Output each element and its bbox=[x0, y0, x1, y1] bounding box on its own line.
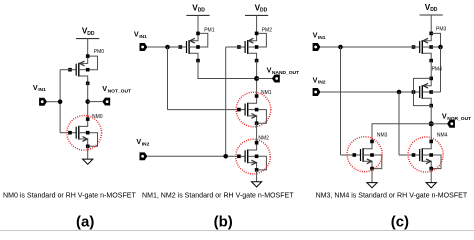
output pin V_NOT_OUT bbox=[102, 98, 110, 106]
svg-text:IN1: IN1 bbox=[318, 35, 326, 41]
svg-text:NM1, NM2 is Standard or RH V-g: NM1, NM2 is Standard or RH V-gate n-MOSF… bbox=[142, 192, 294, 199]
wire VDD to PM0 source bbox=[87, 39, 89, 55]
ground NM3 bbox=[367, 183, 377, 188]
svg-text:IN1: IN1 bbox=[139, 34, 147, 40]
wire NM3 source to ground bbox=[371, 169, 373, 183]
svg-text:NOT_OUT: NOT_OUT bbox=[108, 88, 131, 94]
svg-text:V: V bbox=[136, 137, 141, 146]
input pin V_IN1 bbox=[39, 98, 47, 106]
svg-text:DD: DD bbox=[198, 8, 206, 14]
wire PM4 source-side tie loop bbox=[414, 78, 432, 105]
wire V_IN2 pin to PM4 gate bbox=[321, 91, 416, 93]
node V_IN1 junction bbox=[58, 99, 63, 104]
wire VDD to PM1 source bbox=[197, 15, 199, 32]
svg-text:IN1: IN1 bbox=[38, 87, 46, 93]
wire PM3 drain to PM4 source bbox=[430, 61, 432, 79]
wire to V_NOT_OUT pin bbox=[88, 101, 103, 103]
red dashed marker circle around NM2 bbox=[236, 139, 271, 174]
transistor PM2 (p-MOSFET) bbox=[237, 32, 266, 63]
svg-text:NM0 is Standard or RH V-gate n: NM0 is Standard or RH V-gate n-MOSFET bbox=[3, 192, 136, 199]
transistor NM0 (n-MOSFET) bbox=[68, 117, 97, 148]
red dashed marker circle around NM1 bbox=[236, 92, 271, 127]
svg-text:V: V bbox=[102, 84, 107, 93]
label V_IN1 (b) bbox=[134, 30, 147, 40]
wire V_IN1 rail bbox=[59, 70, 61, 133]
node V_IN2 junction (b) bbox=[223, 154, 228, 159]
node V_IN1 junction (b) bbox=[165, 45, 170, 50]
red dashed marker circle around NM3 bbox=[347, 137, 382, 172]
power symbol V_DD supply bbox=[76, 27, 99, 39]
wire V_IN2 rail (c) bbox=[398, 92, 400, 155]
wire NM1 source to NM2 drain bbox=[256, 123, 258, 143]
wire PM1 drain to output node bbox=[198, 61, 257, 79]
input pin V_IN2 (c) bbox=[313, 88, 321, 96]
wire PM3 source to bulk rail bbox=[431, 33, 440, 47]
svg-text:IN2: IN2 bbox=[318, 80, 326, 86]
wire V_IN1 rail to NM0 gate bbox=[60, 132, 71, 134]
label V_IN1 (c) bbox=[313, 31, 326, 41]
svg-text:DD: DD bbox=[87, 31, 95, 37]
ground (a) bbox=[83, 159, 93, 164]
wire V_IN2 rail (b) bbox=[225, 47, 227, 156]
input pin V_IN2 (b) bbox=[140, 152, 148, 160]
transistor PM1 (p-MOSFET) bbox=[179, 32, 208, 63]
svg-text:NM3, NM4 is Standard or RH V-g: NM3, NM4 is Standard or RH V-gate n-MOSF… bbox=[316, 192, 468, 199]
wire VDD to PM2 source bbox=[256, 15, 258, 32]
svg-text:NM4: NM4 bbox=[437, 133, 448, 139]
wire V_IN1 rail (b) bbox=[167, 47, 169, 110]
power symbol V_DD supply bbox=[420, 3, 443, 15]
transistor PM3 (p-MOSFET) bbox=[412, 32, 433, 63]
wire V_IN1 rail to NM3 gate bbox=[341, 154, 356, 156]
wire bulk rail down to PM4 bbox=[440, 47, 442, 92]
label V_NOR_OUT bbox=[442, 112, 471, 122]
svg-text:V: V bbox=[134, 30, 139, 39]
wire NM4 source to ground bbox=[430, 169, 432, 183]
wire PM4 bulk to rail bbox=[431, 91, 440, 93]
label V_IN2 (b) bbox=[136, 137, 149, 147]
transistor PM4 (p-MOSFET) bbox=[412, 77, 433, 108]
node V_NOR_OUT junction bbox=[429, 121, 434, 126]
transistor NM4 (n-MOSFET) bbox=[412, 140, 441, 171]
wire V_IN2 rail to NM4 gate bbox=[399, 154, 415, 156]
wire V_IN1 pin to rail bbox=[47, 101, 60, 103]
output pin V_NOR_OUT bbox=[447, 120, 455, 128]
wire V_IN1 rail to PM0 gate bbox=[60, 69, 71, 71]
output pin V_NAND_OUT bbox=[272, 75, 280, 83]
svg-text:IN2: IN2 bbox=[142, 142, 150, 148]
wire V_IN1 rail (c) bbox=[340, 47, 342, 155]
wire NM3 drain to output node bbox=[372, 124, 431, 142]
input pin V_IN1 (b) bbox=[140, 43, 148, 51]
node PM3 bulk junction bbox=[438, 45, 443, 50]
ground (b) bbox=[252, 182, 262, 187]
wire V_IN1 pin to PM3 gate bbox=[321, 46, 416, 48]
transistor PM0 (p-MOSFET) bbox=[68, 54, 97, 85]
svg-text:PM0: PM0 bbox=[94, 49, 105, 55]
svg-text:V: V bbox=[267, 66, 272, 75]
bottom page edge line bbox=[0, 230, 474, 232]
power symbol V_DD supply bbox=[186, 3, 209, 15]
node V_NAND_OUT junction bbox=[254, 76, 259, 81]
ground NM4 bbox=[426, 183, 436, 188]
wire to V_NOR_OUT pin bbox=[431, 123, 447, 125]
wire PM4 drain to NM4 drain bbox=[430, 106, 432, 142]
svg-text:PM1: PM1 bbox=[204, 27, 215, 33]
wire V_IN1 pin to PM1 gate bbox=[147, 46, 181, 48]
svg-text:V: V bbox=[442, 112, 447, 121]
svg-text:(a): (a) bbox=[76, 213, 94, 230]
node V_IN2 junction (c) bbox=[397, 90, 402, 95]
transistor NM3 (n-MOSFET) bbox=[353, 140, 382, 171]
wire V_IN1 rail to NM1 gate bbox=[168, 109, 241, 111]
red dashed marker circle around NM4 bbox=[408, 137, 443, 172]
svg-text:DD: DD bbox=[260, 8, 268, 14]
red dashed marker circle around NM0 bbox=[67, 116, 102, 151]
wire PM0 drain to NM0 drain bbox=[87, 83, 89, 119]
svg-text:NM3: NM3 bbox=[377, 133, 388, 139]
svg-text:PM3: PM3 bbox=[436, 27, 447, 33]
wire V_IN2 rail to PM2 gate bbox=[226, 46, 241, 48]
svg-text:(c): (c) bbox=[391, 213, 409, 230]
svg-text:V: V bbox=[313, 75, 318, 84]
node V_NOT_OUT junction bbox=[85, 99, 90, 104]
label V_IN2 (c) bbox=[313, 75, 326, 85]
transistor NM2 (n-MOSFET) bbox=[237, 141, 266, 172]
label V_IN1 bbox=[33, 83, 46, 93]
label V_NAND_OUT bbox=[267, 66, 299, 76]
input pin V_IN1 (c) bbox=[313, 43, 321, 51]
wire PM2 drain to NM1 drain bbox=[256, 61, 258, 96]
wire NM0 source to ground bbox=[87, 146, 89, 159]
svg-text:PM4: PM4 bbox=[432, 67, 443, 73]
svg-text:(b): (b) bbox=[214, 213, 233, 230]
svg-text:V: V bbox=[33, 83, 38, 92]
label V_NOT_OUT bbox=[102, 84, 131, 94]
svg-text:NM0: NM0 bbox=[92, 114, 103, 120]
wire VDD to PM3 source bbox=[430, 15, 432, 32]
svg-text:PM2: PM2 bbox=[262, 27, 273, 33]
svg-text:DD: DD bbox=[430, 7, 438, 13]
wire V_IN2 pin to NM2 gate bbox=[147, 155, 240, 157]
wire NM2 source to ground bbox=[256, 170, 258, 182]
svg-text:V: V bbox=[313, 31, 318, 40]
power symbol V_DD supply bbox=[245, 3, 268, 15]
wire to V_NAND_OUT pin bbox=[257, 78, 272, 80]
wire PM3 bulk to rail bbox=[431, 46, 440, 48]
node V_IN1 junction (c) bbox=[338, 45, 343, 50]
transistor NM1 (n-MOSFET) bbox=[237, 94, 266, 125]
